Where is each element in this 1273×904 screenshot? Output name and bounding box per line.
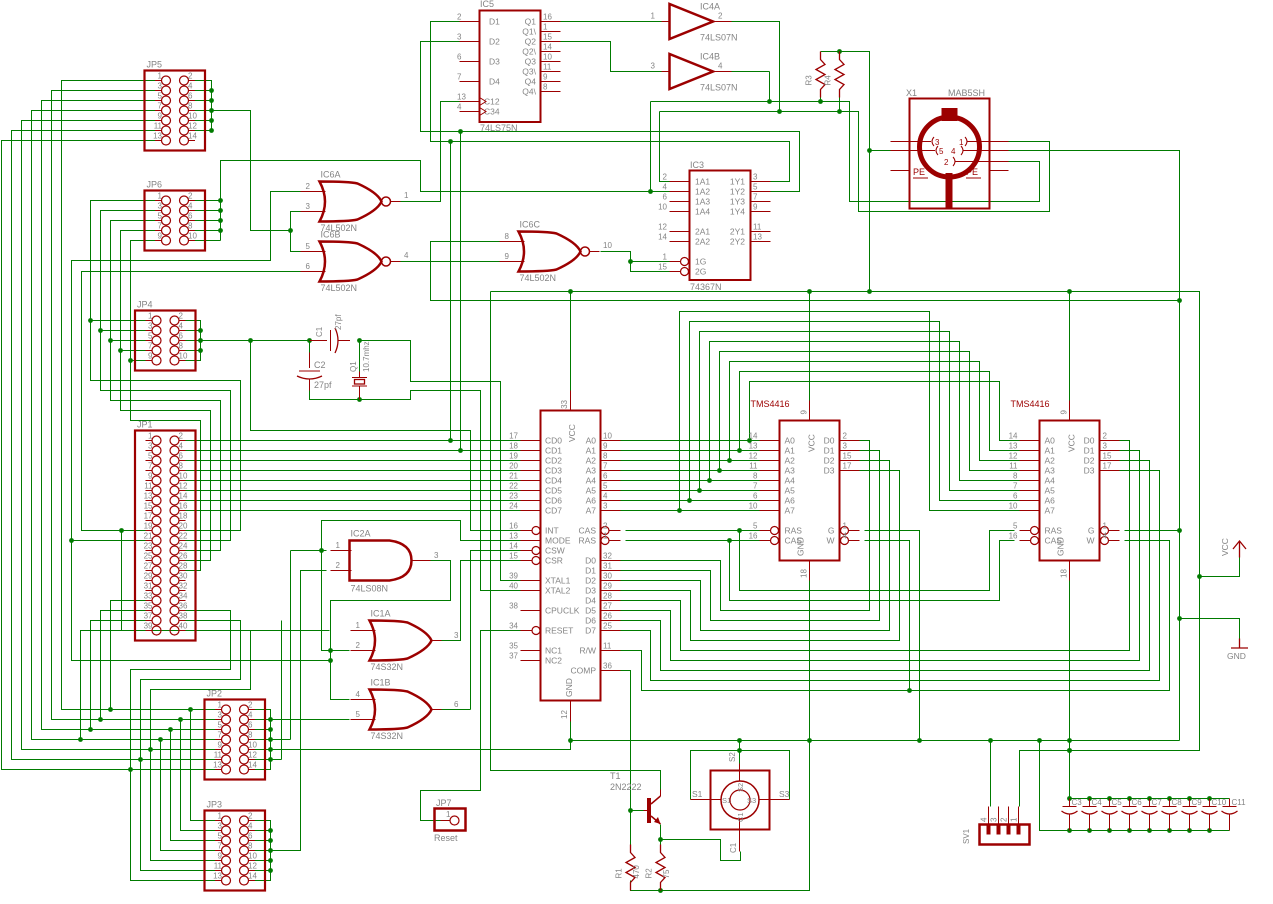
svg-text:IC5: IC5 [480, 0, 494, 9]
wire VCC rail to T1 collector [491, 292, 661, 790]
svg-text:D2: D2 [489, 37, 500, 47]
svg-text:5: 5 [939, 147, 944, 156]
svg-text:5: 5 [603, 482, 608, 491]
IC7 pin 1 G [849, 530, 860, 532]
JP1 pin 28 [179, 570, 186, 572]
wire JP3 pin10 [249, 860, 271, 862]
svg-text:2: 2 [1000, 817, 1009, 822]
svg-text:40: 40 [509, 582, 518, 591]
svg-text:S3: S3 [747, 796, 756, 805]
IC6 pin 23 CD6 [521, 500, 541, 502]
wire crystal node A [251, 340, 310, 342]
IC5 pin 6 D3 [460, 61, 480, 63]
IC8 pin 5 RAS [1020, 530, 1031, 532]
svg-text:18: 18 [179, 512, 188, 521]
capacitor C3 [1069, 799, 1071, 807]
svg-text:C1: C1 [315, 326, 324, 337]
wire R/W to W pins [621, 541, 1170, 691]
IC IC8 TMS4416 body [1040, 421, 1100, 561]
svg-text:CD6: CD6 [545, 496, 562, 506]
svg-text:27pf: 27pf [314, 380, 332, 390]
wire JP5 bus to IC6 gates [212, 111, 291, 231]
svg-text:4: 4 [843, 532, 848, 541]
wire IC5 D1 net [431, 22, 790, 182]
JP1 pin 18 [179, 520, 186, 522]
JP2 pin 12 [249, 759, 256, 761]
svg-text:4: 4 [718, 62, 723, 71]
svg-text:13: 13 [753, 233, 762, 242]
JP4 pin 4 [179, 330, 186, 332]
svg-text:1: 1 [603, 532, 608, 541]
junction caps bottom C5 [1107, 828, 1112, 833]
IC6C output bubble [581, 247, 590, 256]
svg-text:IC2A: IC2A [351, 529, 371, 539]
svg-text:28: 28 [603, 592, 612, 601]
JP1 pin 25 [146, 560, 153, 562]
SV1 pin 4 [988, 807, 990, 825]
wire XTAL2 net [360, 391, 521, 591]
junction T1 base/R1 [628, 808, 633, 813]
svg-text:3: 3 [651, 62, 656, 71]
svg-text:74LS75N: 74LS75N [480, 123, 518, 133]
IC5 pin 8 Q4\ [541, 91, 561, 93]
junction IC4A out [777, 109, 782, 114]
IC8 pin 11 A3 [1020, 470, 1040, 472]
junction JP4 row4 left [118, 348, 123, 353]
svg-text:2: 2 [179, 312, 184, 321]
IC6 pin 37 NC2 [521, 660, 541, 662]
IC7 pin 6 A6 [760, 500, 780, 502]
wire IC6 GND pin12 [570, 722, 572, 741]
svg-text:IC3: IC3 [690, 160, 704, 170]
svg-text:74L502N: 74L502N [520, 273, 557, 283]
svg-text:74S32N: 74S32N [371, 662, 404, 672]
X1 pin 5 [891, 150, 936, 152]
svg-text:INT: INT [545, 526, 559, 536]
svg-text:28: 28 [179, 562, 188, 571]
JP4 pin 7 [146, 350, 153, 352]
svg-text:2: 2 [248, 812, 253, 821]
IC6 pin 13 MODE [521, 540, 541, 542]
IC7 pin 15 D2 [840, 460, 860, 462]
svg-text:4: 4 [951, 147, 956, 156]
svg-text:4: 4 [980, 817, 989, 822]
wire JP1 pin39 to JP2 row4 [81, 631, 153, 740]
wire caps top rail [1070, 798, 1230, 800]
junction caps bottom C6 [1127, 828, 1132, 833]
svg-text:PE: PE [966, 167, 978, 177]
wire VCC symbol stub [1200, 558, 1240, 577]
svg-text:CPUCLK: CPUCLK [545, 606, 580, 616]
IC6 pin 21 CD4 [521, 480, 541, 482]
IC7 pin 2 D0 [840, 440, 860, 442]
svg-text:2: 2 [603, 522, 608, 531]
wire COMP to T1 base [621, 671, 631, 811]
wire JP2 row4 to riser [271, 739, 291, 741]
svg-text:14: 14 [248, 761, 257, 770]
wire IC4B out drop [769, 72, 771, 102]
S1 pin S2 top [739, 764, 741, 782]
IC7 pin 16 CAS [760, 540, 771, 542]
svg-text:32: 32 [179, 582, 188, 591]
svg-text:3: 3 [603, 502, 608, 511]
junction JP6 right row1 [218, 198, 223, 203]
capacitor C11 [1229, 799, 1231, 807]
svg-text:29: 29 [603, 582, 612, 591]
svg-text:MODE: MODE [545, 536, 571, 546]
junction A5 [697, 488, 702, 493]
IC6 GND pin 12 [570, 701, 572, 722]
wire IC5 Q2 to IC4B [561, 42, 662, 72]
wire JP1 pin33 to JP2 row1 [111, 601, 153, 710]
wire JP2 pin6 [249, 729, 271, 731]
junction JP2 row2 left [98, 717, 103, 722]
JP4 pin 9 [146, 360, 153, 362]
svg-text:XTAL1: XTAL1 [545, 576, 571, 586]
IC6 pin 31 D1 [601, 570, 621, 572]
svg-text:25: 25 [603, 622, 612, 631]
svg-text:13: 13 [144, 492, 153, 501]
wire IC4B out net y101 [650, 102, 652, 192]
svg-text:IC6A: IC6A [321, 170, 341, 180]
capacitor C4 [1089, 799, 1091, 807]
svg-text:4: 4 [248, 822, 253, 831]
junction crystal B [357, 338, 362, 343]
IC3 pin 10 1A4 [670, 211, 690, 213]
svg-text:40: 40 [179, 622, 188, 631]
svg-text:C1: C1 [729, 842, 738, 853]
wire VCC rail [491, 292, 1200, 807]
JP1 pin 39 [146, 630, 153, 632]
svg-text:14: 14 [1009, 432, 1018, 441]
IC IC6 VDP body [541, 411, 601, 701]
svg-text:1: 1 [148, 432, 153, 441]
svg-text:470: 470 [632, 865, 641, 879]
JP2 pin 10 [249, 749, 256, 751]
wire X1 pin4 shield to GND rail [1009, 151, 1180, 741]
IC6 pin 14 CSW [521, 550, 533, 552]
svg-text:15: 15 [509, 552, 518, 561]
svg-text:A5: A5 [1045, 486, 1056, 496]
wire JP2 row4 to JP3 pin7 [161, 740, 222, 851]
wire bus JP5 pin9 to JP2 row5 [22, 121, 222, 750]
svg-text:2: 2 [248, 701, 253, 710]
svg-text:VCC: VCC [567, 424, 577, 442]
junction caps top C3 [1067, 796, 1072, 801]
IC3 pin 3 1Y1 [751, 181, 771, 183]
JP4 pin 8 [179, 350, 186, 352]
wire JP2 row6 to JP3 pin11 [141, 760, 222, 871]
svg-text:RESET: RESET [545, 626, 573, 636]
wire CD2 line [179, 460, 521, 462]
wire A2 line to DRAM1 [621, 460, 760, 462]
junction JP4 row3 left [108, 338, 113, 343]
svg-text:IC1B: IC1B [371, 678, 391, 688]
svg-text:IC4B: IC4B [700, 52, 720, 62]
junction A6 [687, 498, 692, 503]
wire JP5 pin12 [189, 130, 212, 132]
JP5 pin 2 [189, 80, 196, 82]
junction JP4 right row3 [198, 338, 203, 343]
svg-text:Q1\: Q1\ [522, 27, 536, 37]
wire IC2A pin1 riser to MODE [322, 521, 521, 551]
svg-text:34: 34 [509, 622, 518, 631]
svg-text:1: 1 [843, 522, 848, 531]
svg-text:D4: D4 [585, 596, 596, 606]
wire JP2 row5 to JP3 pin9 [151, 750, 222, 861]
JP1 pin 30 [179, 580, 186, 582]
svg-text:1A3: 1A3 [695, 197, 710, 207]
junction R4 top [837, 49, 842, 54]
svg-text:2: 2 [336, 561, 341, 570]
wire emitter node to R2 [660, 840, 662, 845]
svg-text:5: 5 [1013, 522, 1018, 531]
junction JP2 row3 left [88, 727, 93, 732]
svg-text:A5: A5 [785, 486, 796, 496]
svg-text:3: 3 [990, 817, 999, 822]
svg-text:1: 1 [543, 23, 548, 32]
IC6 pin 15 CSR [521, 560, 533, 562]
svg-text:6: 6 [663, 193, 668, 202]
JP1 pin 20 [179, 530, 186, 532]
svg-text:JP4: JP4 [137, 300, 153, 310]
IC3 pin 14 2A2 [670, 241, 690, 243]
JP1 pin 1 [146, 440, 153, 442]
junction caps bottom C7 [1147, 828, 1152, 833]
svg-text:2N2222: 2N2222 [610, 782, 642, 792]
wire JP4 pin6 to crystal node [179, 340, 310, 342]
junction JP2 row6 mid [138, 757, 143, 762]
wire JP6 pin3 via JP4 row2 to JP1 pin22 [101, 211, 231, 541]
JP2 pin 6 [249, 729, 256, 731]
wire IC6A out to IC5 C12 [401, 102, 460, 202]
connector SV1 body [980, 825, 1030, 845]
svg-text:4: 4 [457, 103, 462, 112]
svg-text:2: 2 [944, 158, 949, 167]
resistor R3 [816, 52, 825, 98]
wire GND symbol stub [1180, 619, 1240, 639]
IC5 pin 2 D1 [460, 21, 480, 23]
svg-text:2Y2: 2Y2 [730, 237, 745, 247]
IC6 pin 17 CD0 [521, 440, 541, 442]
IC6 pin 16 INT [521, 530, 533, 532]
svg-text:12: 12 [658, 223, 667, 232]
svg-text:34: 34 [179, 592, 188, 601]
JP4 pin 6 [179, 340, 186, 342]
svg-text:37: 37 [144, 612, 153, 621]
svg-text:9: 9 [218, 741, 223, 750]
IC3 pin 12 2A1 [670, 231, 690, 233]
svg-text:4: 4 [1103, 532, 1108, 541]
svg-text:A0: A0 [586, 436, 597, 446]
svg-text:S2: S2 [728, 752, 737, 762]
junction caps top C4 [1087, 796, 1092, 801]
JP2 pin 1 [215, 709, 222, 711]
wire A6 line to DRAM1 [621, 500, 760, 502]
svg-text:10: 10 [248, 852, 257, 861]
svg-text:2Y1: 2Y1 [730, 227, 745, 237]
svg-text:26: 26 [179, 552, 188, 561]
wire A4 line to DRAM1 [621, 480, 760, 482]
JP1 pin 12 [179, 490, 186, 492]
wire JP4 pin5 [111, 340, 152, 342]
svg-text:A2: A2 [1045, 456, 1056, 466]
junction VCC/DRAM1 [807, 289, 812, 294]
svg-text:PE: PE [913, 167, 925, 177]
wire Q1 top [359, 341, 361, 372]
JP4 pin 5 [146, 340, 153, 342]
wire A5 stair to DRAM2 [700, 332, 1020, 491]
svg-text:3: 3 [158, 202, 163, 211]
wire JP4 pin9 [131, 360, 152, 362]
svg-text:C10: C10 [1212, 798, 1227, 807]
svg-text:Q4: Q4 [525, 77, 537, 87]
JP2 pin 9 [215, 749, 222, 751]
buffer IC4A 74LS07N [670, 4, 714, 39]
JP1 pin 11 [146, 490, 153, 492]
svg-text:TMS4416: TMS4416 [1011, 399, 1050, 409]
svg-text:D0: D0 [1084, 436, 1095, 446]
junction CD0 line [448, 438, 453, 443]
junction shield/GND symbol [1177, 616, 1182, 621]
svg-text:3: 3 [843, 442, 848, 451]
connector JP7 [435, 809, 466, 831]
svg-text:10: 10 [188, 232, 197, 241]
svg-text:12: 12 [179, 482, 188, 491]
JP3 pin 9 [215, 860, 222, 862]
svg-text:30: 30 [179, 572, 188, 581]
svg-text:VCC: VCC [1220, 538, 1230, 556]
IC6 pin 19 CD2 [521, 460, 541, 462]
svg-text:D4: D4 [489, 77, 500, 87]
IC8 pin 6 A6 [1020, 500, 1040, 502]
svg-text:RAS: RAS [579, 536, 597, 546]
svg-text:R/W: R/W [579, 646, 596, 656]
svg-text:GND: GND [1227, 651, 1246, 661]
IC6 pin 5 A5 [601, 490, 621, 492]
wire IC2A pin2 from JP3 pin8 [271, 571, 327, 851]
wire IC6A pin3 / IC6B pin5 tie [291, 212, 301, 252]
JP1 pin 5 [146, 460, 153, 462]
wire DRAM2 G to shield [1125, 530, 1180, 532]
JP2 pin 13 [215, 769, 222, 771]
junction DRAM2GND/VCCrail [1067, 748, 1072, 753]
svg-text:36: 36 [179, 602, 188, 611]
svg-text:27: 27 [603, 602, 612, 611]
IC6 pin 35 NC1 [521, 650, 541, 652]
junction JP3 right row5 [268, 858, 273, 863]
JP3 pin 5 [215, 840, 222, 842]
junction JP4 right row2 [198, 328, 203, 333]
IC6 pin 4 A6 [601, 500, 621, 502]
svg-text:8: 8 [753, 472, 758, 481]
junction JP5 right row6 [209, 128, 214, 133]
svg-text:C8: C8 [1172, 798, 1183, 807]
wire CD4 line [179, 480, 521, 482]
JP2 pin 14 [249, 769, 256, 771]
svg-text:D1: D1 [824, 446, 835, 456]
svg-text:10: 10 [603, 241, 612, 250]
junction JP2 row3 mid [168, 727, 173, 732]
svg-text:JP1: JP1 [137, 420, 153, 430]
wire JP4 pin8 [179, 350, 201, 352]
svg-text:13: 13 [509, 532, 518, 541]
connector X1 body [910, 99, 990, 209]
svg-text:A4: A4 [1045, 476, 1056, 486]
wire A7 stair to DRAM2 [680, 312, 1020, 511]
IC6 pin 9 A1 [601, 450, 621, 452]
svg-text:Q1: Q1 [349, 361, 358, 372]
JP4 pin 10 [179, 360, 186, 362]
wire A1 stair to DRAM2 [740, 372, 1020, 451]
svg-text:2: 2 [356, 641, 361, 650]
svg-text:Q3\: Q3\ [522, 67, 536, 77]
wire JP2 row5 to IC6 GND pin12 [271, 741, 571, 750]
junction caps top C5 [1107, 796, 1112, 801]
capacitor C10 [1209, 799, 1211, 807]
svg-text:4: 4 [179, 322, 184, 331]
svg-text:31: 31 [603, 562, 612, 571]
svg-text:74367N: 74367N [690, 282, 722, 292]
S1 pin C1 bottom [739, 819, 741, 852]
IC7 pin 12 A2 [760, 460, 780, 462]
svg-text:JP3: JP3 [207, 800, 223, 810]
IC7 pin 13 A1 [760, 450, 780, 452]
svg-text:10: 10 [188, 112, 197, 121]
wire bus JP5 pin13 to JP2 row7 [2, 141, 222, 770]
svg-text:TMS4416: TMS4416 [751, 399, 790, 409]
svg-text:3: 3 [434, 551, 439, 560]
svg-text:4: 4 [603, 492, 608, 501]
wire bus JP5 pin1 to JP2 row1 [62, 81, 222, 710]
junction JP4 row2 left [98, 328, 103, 333]
wire IC2A pin1 drop to IC1A pin2 [322, 551, 350, 651]
wire JP3 pin4 [249, 830, 271, 832]
wire JP1 pin35 to JP2 row2 [101, 611, 153, 720]
wire CSW to IC1B out [471, 551, 521, 710]
junction JP2 row7 mid [128, 767, 133, 772]
svg-text:D7: D7 [585, 626, 596, 636]
IC7 pin 5 RAS [760, 530, 771, 532]
svg-text:D5: D5 [585, 606, 596, 616]
gate IC6A body [320, 182, 382, 222]
wire JP1 pin37 to JP2 row3 [91, 621, 153, 730]
svg-text:9: 9 [158, 112, 163, 121]
svg-text:13: 13 [213, 872, 222, 881]
SV1 pin 2 [1008, 807, 1010, 825]
svg-text:4: 4 [356, 690, 361, 699]
svg-text:3: 3 [158, 82, 163, 91]
IC5 pin 9 Q4 [541, 81, 561, 83]
JP2 pin 2 [249, 709, 256, 711]
svg-text:39: 39 [144, 622, 153, 631]
IC5 pin 11 Q3\ [541, 71, 561, 73]
JP3 pin 11 [215, 870, 222, 872]
svg-text:1A4: 1A4 [695, 207, 710, 217]
crystal Q1 10.7mhz [359, 372, 361, 378]
svg-text:9: 9 [158, 232, 163, 241]
svg-text:1: 1 [218, 812, 223, 821]
wire JP5 pin6 [189, 100, 212, 102]
svg-text:RAS: RAS [785, 526, 803, 536]
wire RESET to JP7 [421, 631, 521, 821]
wire GND rail to caps bottom [1040, 741, 1230, 831]
svg-text:D6: D6 [585, 616, 596, 626]
junction JP2 right row2 [268, 717, 273, 722]
IC7 pin 11 A3 [760, 470, 780, 472]
svg-text:37: 37 [509, 652, 518, 661]
IC IC3 body [690, 171, 751, 281]
